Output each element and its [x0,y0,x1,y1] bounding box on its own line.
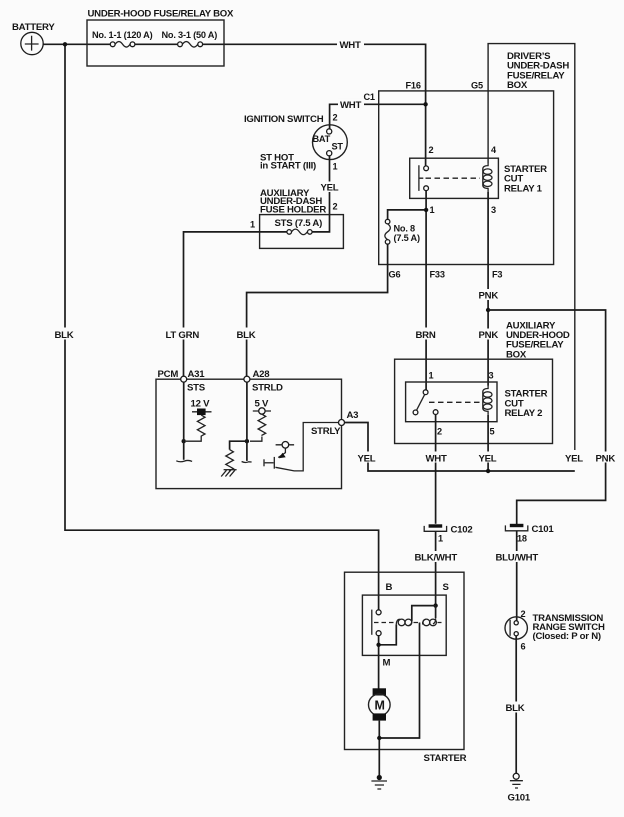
wire 12V resistor to STS line [186,437,201,442]
svg-text:PCM: PCM [158,369,179,380]
wire C102 to starter S (BLK/WHT) [435,531,437,605]
resistor (12V pull-up) [197,415,205,436]
hold-in coil [423,618,437,626]
svg-text:STS: STS [187,382,206,393]
svg-text:BLK: BLK [237,330,256,341]
label ST HOT in START (III) [260,152,316,171]
svg-text:BLK: BLK [55,330,74,341]
node STRLD junction [245,439,249,443]
svg-text:A31: A31 [188,369,206,380]
PCM terminal A28 [244,369,283,393]
battery [12,22,55,55]
solenoid dashed link [374,622,394,624]
ignition switch [244,113,347,172]
svg-text:1: 1 [333,161,338,171]
label PNK (right drop) [595,452,618,465]
svg-text:M: M [383,658,391,669]
resistor (pull-down) [226,450,234,472]
svg-text:3: 3 [491,205,496,215]
svg-text:STRLD: STRLD [252,382,283,393]
svg-text:in START (III): in START (III) [260,161,316,172]
svg-text:UNDER-HOOD FUSE/RELAY BOX: UNDER-HOOD FUSE/RELAY BOX [88,9,235,20]
label YEL [320,182,342,194]
label YEL (relay2 pin5) [478,452,500,465]
label WHT (ignition feed) [338,99,364,111]
svg-text:M: M [375,698,385,712]
svg-text:A28: A28 [253,369,271,380]
svg-text:RELAY 2: RELAY 2 [505,408,543,419]
svg-text:F16: F16 [406,81,421,91]
PCM terminal A31 [181,369,206,393]
svg-text:WHT: WHT [340,40,361,51]
fuse No.1-1 (120 A) [92,30,153,49]
connector C101 [505,524,554,544]
node solenoid M output [376,643,380,647]
svg-text:1: 1 [430,205,435,215]
fuse No.3-1 (50 A) [162,30,218,49]
wire ignition BAT terminal to F16 node (WHT) [330,104,426,129]
wire branch to fuse No.8 [388,210,424,219]
wire STS fuse to PCM A31 (LT GRN) [184,232,287,376]
svg-text:C102: C102 [451,524,473,535]
svg-text:F3: F3 [492,270,502,280]
svg-text:BLK/WHT: BLK/WHT [415,552,458,563]
ground (lower resistor) [221,470,236,477]
svg-text:B: B [386,582,393,593]
svg-text:WHT: WHT [426,453,447,464]
label BLK/WHT [414,551,459,563]
svg-text:RELAY 1: RELAY 1 [504,183,543,194]
starter assembly box [345,572,467,764]
svg-text:No. 8: No. 8 [394,224,416,234]
wire STS internal to ground [183,382,185,460]
svg-text:2: 2 [333,113,338,123]
svg-text:1: 1 [438,534,443,544]
svg-text:S: S [443,582,450,593]
wire S node down to hold-in coil [435,606,437,618]
wire contact to pull-in coil [379,624,397,644]
label BRN [415,328,438,342]
svg-text:LT GRN: LT GRN [166,330,200,341]
wire PNK branch to C101 [488,310,605,524]
wire YEL bus from PCM A3 [345,423,575,472]
svg-text:G5: G5 [471,81,483,91]
label BLK (battery ground-side wire) [54,328,77,342]
svg-text:F33: F33 [430,270,445,280]
svg-text:6: 6 [521,642,526,652]
connector C102 [424,524,472,543]
solenoid contacts [376,610,381,615]
svg-text:12 V: 12 V [191,398,211,409]
12 V supply tap [191,398,212,415]
starter solenoid box [362,595,446,655]
svg-text:PNK: PNK [596,453,616,464]
svg-text:ST: ST [332,142,344,152]
starter cut relay 2 [406,371,548,437]
label WHT (top wire) [337,39,364,52]
svg-text:WHT: WHT [340,100,361,111]
node STS junction [182,439,186,443]
relay 1 dashed link [426,177,481,179]
svg-text:YEL: YEL [358,453,376,464]
svg-text:No. 1-1 (120 A): No. 1-1 (120 A) [92,30,153,40]
ground (STS line) [176,460,192,461]
svg-text:STARTER: STARTER [424,753,467,764]
svg-text:STS (7.5 A): STS (7.5 A) [275,218,323,229]
transmission range switch [505,609,605,652]
label LT GRN [165,328,201,342]
relay 2 dashed link [429,401,480,403]
wire relay1 pin1 down F33/BRN to relay2 pin1 [425,191,427,390]
wire relay2 pin2 down to C102 (WHT) [435,415,437,524]
PCM box [156,369,342,489]
under-hood fuse/relay box [87,9,234,67]
svg-text:1: 1 [429,371,434,381]
starter motor M1 [369,688,391,720]
pull-in coil [396,619,412,626]
wire STRLD internal down [246,382,248,461]
svg-text:C1: C1 [364,92,375,102]
wire solenoid contact to motor [378,636,380,690]
relay 2 coil [483,386,492,415]
svg-text:3: 3 [489,371,494,381]
svg-text:2: 2 [429,145,434,155]
svg-text:BLU/WHT: BLU/WHT [496,552,539,563]
svg-text:18: 18 [517,534,527,544]
ground (starter) [371,775,387,789]
wire hold-in coil to motor low side [381,623,420,739]
node starter S junction [433,603,437,607]
svg-text:STRLY: STRLY [311,426,341,437]
svg-text:PNK: PNK [479,330,499,341]
svg-text:G101: G101 [508,793,531,804]
label BLU/WHT [495,551,539,563]
svg-text:PNK: PNK [479,291,499,302]
svg-text:BRN: BRN [416,330,436,341]
wire motor to ground [378,721,380,778]
svg-text:2: 2 [437,426,442,436]
svg-text:(7.5 A): (7.5 A) [394,233,420,243]
svg-text:5: 5 [490,426,495,436]
svg-text:BOX: BOX [507,80,528,91]
svg-text:FUSE HOLDER: FUSE HOLDER [260,204,326,215]
svg-text:1: 1 [250,219,255,229]
svg-text:BATTERY: BATTERY [12,22,55,33]
label PNK (F3) [478,289,501,302]
node battery junction [63,42,67,46]
auxiliary under-hood fuse/relay box [395,320,570,443]
PCM terminal A3 [311,410,358,437]
node PNK branch [486,308,490,312]
relay 1 armature bar [419,165,423,191]
wire 5V resistor to STRLD line [250,437,262,442]
label WHT (relay2 pin2) [425,452,448,465]
ground (STRLD line) [242,461,252,464]
node YEL bus junction [486,469,490,473]
label PNK (below node) [478,329,501,342]
wire range switch to G101 (BLK) [515,636,517,774]
label BLK (A28 wire) [236,328,259,342]
resistor (5V pull-up) [258,414,266,436]
wire relay2 pin5 down to YEL bus [487,415,489,471]
svg-text:2: 2 [521,609,526,619]
label BLK (range switch) [505,702,528,715]
wire battery BLK down-left to starter [65,44,379,610]
5 V supply tap [253,398,271,414]
ground G101 [508,773,531,803]
svg-text:C101: C101 [532,524,555,535]
node motor low-side junction [377,736,381,740]
svg-text:(Closed: P or N): (Closed: P or N) [533,631,601,642]
fuse STS (7.5 A) [275,218,323,235]
wire relay1 coil down F3/PNK to relay2 coil [487,192,489,386]
node relay1 pin1 / No.8 branch [424,208,428,212]
transistor Q (PCM output driver) [264,423,339,471]
svg-text:A3: A3 [347,410,359,421]
svg-text:BAT: BAT [313,134,331,144]
svg-text:No. 3-1 (50 A): No. 3-1 (50 A) [162,30,218,40]
relay 2 contact pins and armature [423,390,428,395]
fuse No.8 (7.5 A) [385,219,420,244]
label YEL (right bus end) [564,452,586,465]
driver's box inner compartment [379,91,554,265]
svg-text:G6: G6 [389,270,401,280]
label YEL (A3 drop) [357,452,379,465]
svg-text:BLK: BLK [506,703,525,714]
auxiliary under-dash fuse holder [260,188,344,249]
driver's under-dash fuse/relay box outline [488,44,575,450]
wire fuse No.8 down to G6 and across to PCM A28 (BLK) [247,244,388,376]
relay 1 contact pins [424,166,429,171]
wire ignition ST to STS fuse (YEL) [312,156,330,232]
svg-text:2: 2 [333,201,338,211]
svg-text:YEL: YEL [321,182,339,193]
node WHT/F16 junction [423,102,427,106]
wire STRLD junction to lower resistor [230,441,247,449]
svg-text:YEL: YEL [479,453,497,464]
solenoid contact plunger [371,610,373,635]
wire pull-in coil to S node [412,606,436,621]
svg-text:IGNITION SWITCH: IGNITION SWITCH [244,114,324,125]
relay 1 coil [483,163,492,192]
svg-text:YEL: YEL [565,453,583,464]
wire battery to F16 corner (WHT) [43,44,426,166]
starter cut relay 1 [410,145,547,215]
wire C101 to transmission range switch (BLU/WHT) [516,531,518,621]
